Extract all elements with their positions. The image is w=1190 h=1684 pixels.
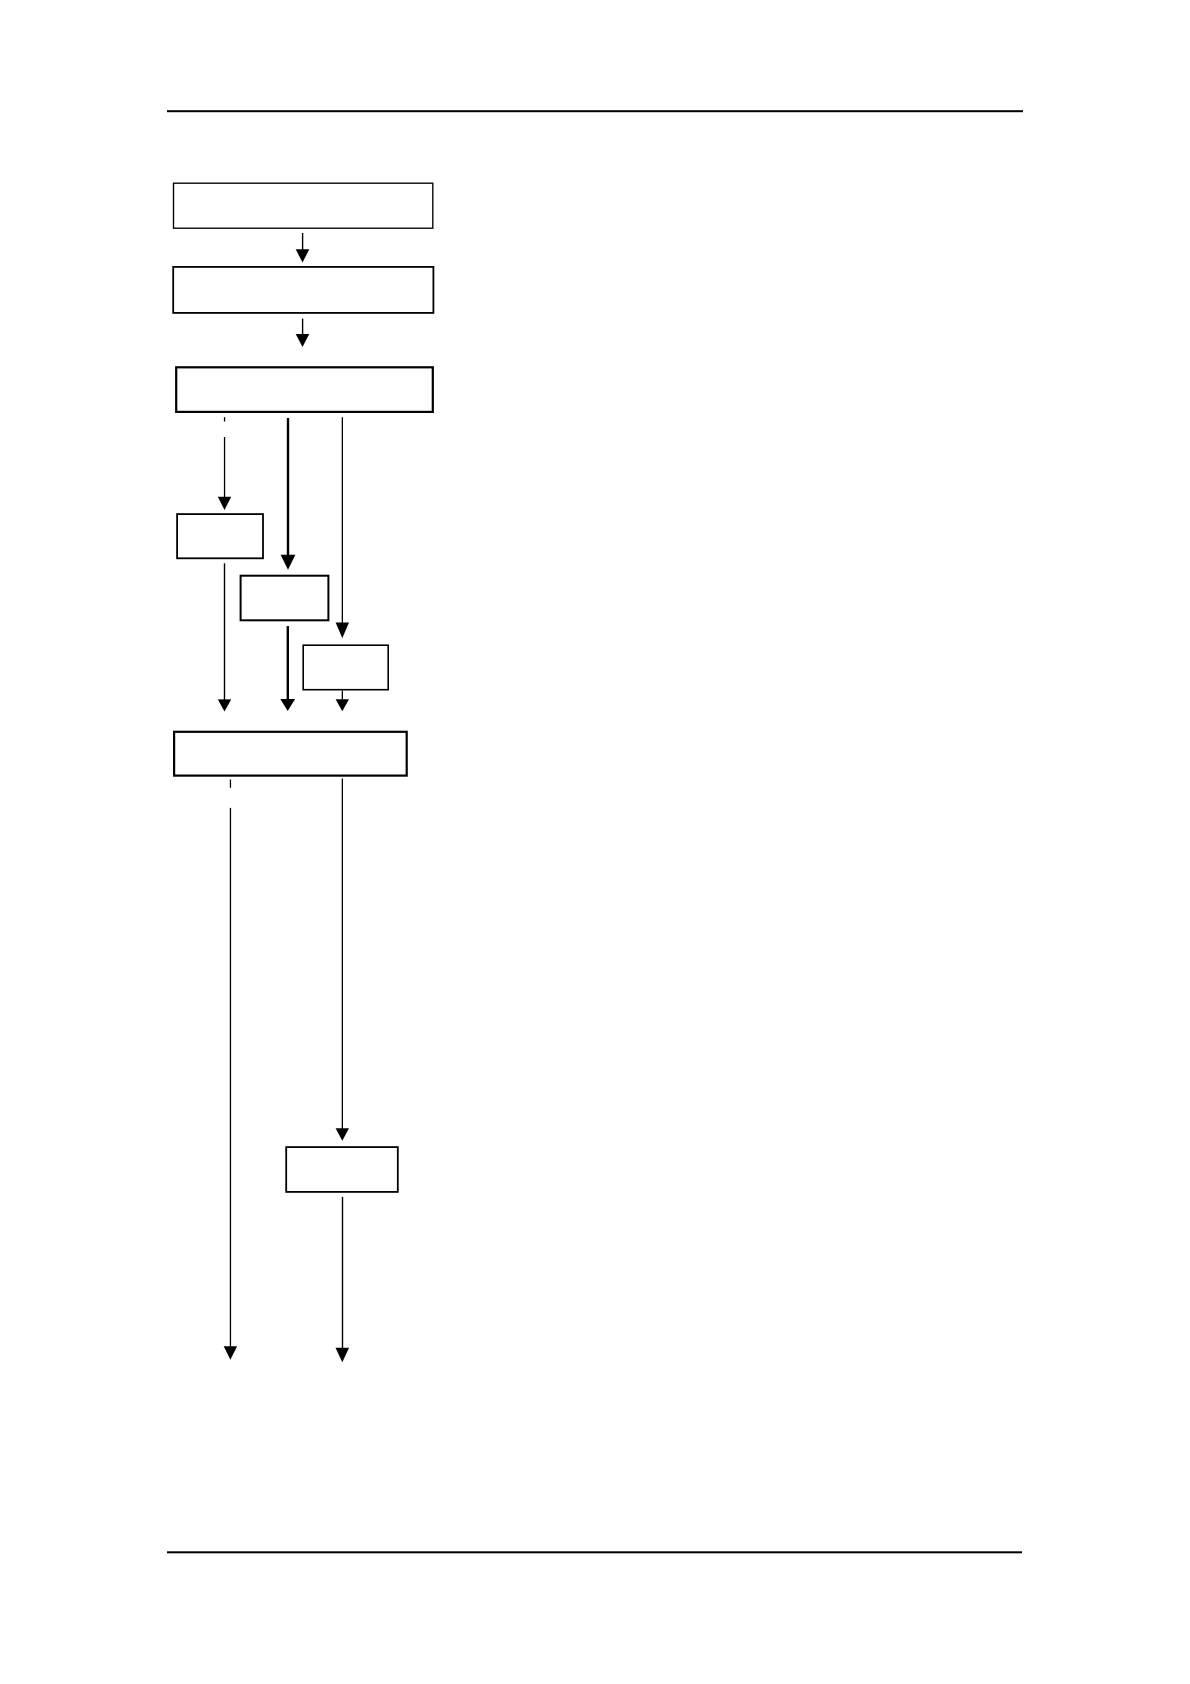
box 6: [303, 645, 388, 690]
box 7: [174, 732, 407, 776]
box 3: [176, 367, 433, 412]
box 5: [241, 576, 329, 621]
wire arrow box3 to box4 (left, broken at top): [218, 417, 231, 510]
wire arrow box1 to box2: [296, 233, 310, 263]
box 8: [286, 1147, 398, 1192]
wire arrow box3 to box6 (right): [336, 417, 349, 638]
wire arrow box2 to box3: [296, 319, 310, 347]
wire arrow box7 to box8 (right branch): [336, 779, 349, 1141]
bottom horizontal rule: [167, 1551, 1022, 1553]
wire arrow box5 down to join row (thick): [280, 626, 295, 711]
box 2: [173, 267, 433, 313]
wire arrow box3 to box5 (middle, thick): [281, 418, 296, 570]
wire arrow box4 down to join row: [218, 563, 231, 711]
wire arrow box7 long left branch (broken at top): [224, 780, 237, 1360]
top horizontal rule: [167, 110, 1023, 112]
box 1: [174, 183, 433, 228]
wire arrow box8 down (final): [336, 1197, 350, 1362]
wire arrow box6 down to join row: [336, 691, 349, 711]
box 4: [177, 514, 263, 558]
